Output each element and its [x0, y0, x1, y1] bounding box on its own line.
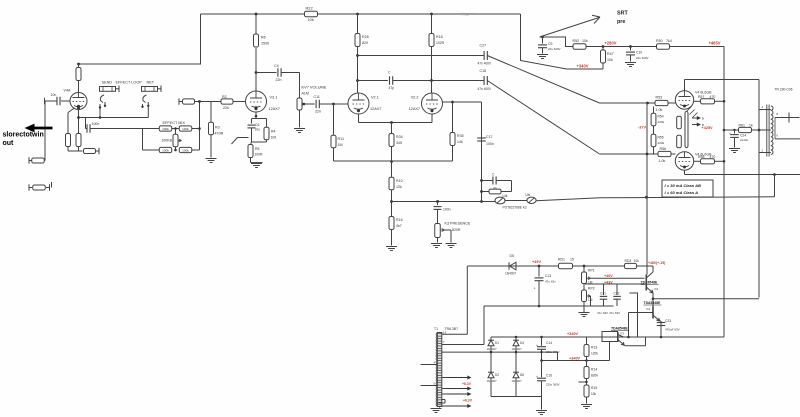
svg-text:C23: C23 [665, 319, 671, 323]
svg-text:pre: pre [617, 19, 625, 25]
svg-text:RD1: RD1 [558, 257, 565, 261]
svg-text:R61: R61 [739, 124, 745, 128]
wire jog [557, 352, 559, 360]
resistor 150 [28, 157, 30, 164]
arrow SRT pre [540, 18, 600, 38]
svg-text:C14: C14 [546, 341, 552, 345]
svg-text:C17: C17 [486, 135, 492, 139]
svg-text:102R: 102R [436, 41, 445, 45]
wire plate top [684, 80, 686, 91]
svg-text:R58: R58 [698, 155, 704, 159]
node NFB [645, 196, 648, 199]
resistor R54 220k [653, 107, 655, 114]
node C14 mid [540, 351, 542, 353]
svg-text:1.0k: 1.0k [656, 108, 663, 112]
svg-text:100n: 100n [92, 122, 100, 126]
node send feed [77, 116, 80, 119]
svg-text:V2.2: V2.2 [411, 96, 419, 100]
resistor R5 100R [251, 142, 252, 145]
node D1 mid [490, 351, 493, 354]
diode D1 1N4007 [490, 337, 492, 340]
svg-text:12AX7: 12AX7 [370, 107, 381, 111]
wire cathode bus V2 [358, 114, 360, 123]
arrow heater 2 [692, 124, 698, 126]
tube V4 6L6GB lower [675, 152, 693, 170]
svg-text:K2: K2 [647, 307, 651, 311]
diode D2 1N4007 [490, 352, 492, 372]
node mix2 [174, 149, 177, 152]
wire HT tap 2 [442, 344, 484, 346]
svg-text:V3.1: V3.1 [270, 96, 278, 100]
ground C16 [536, 410, 547, 412]
wire ret to bus [147, 106, 149, 118]
wire CT lead [759, 129, 771, 131]
capacitor C23 470uF [657, 322, 666, 324]
svg-text:12AX7: 12AX7 [269, 107, 280, 111]
svg-text:10k: 10k [634, 259, 640, 263]
svg-text:TDA8548E: TDA8548E [611, 327, 629, 331]
resistor R57 470 screen [694, 100, 700, 102]
svg-text:+465V: +465V [709, 41, 721, 46]
svg-text:out: out [3, 140, 15, 147]
switch SEND [100, 95, 104, 103]
svg-text:1.0k: 1.0k [659, 159, 666, 163]
svg-text:100k: 100k [182, 149, 189, 153]
svg-text:12AX7: 12AX7 [409, 107, 420, 111]
svg-text:47u 63V 47u 63V: 47u 63V 47u 63V [597, 311, 620, 315]
wire drive diagonal A [487, 56, 599, 104]
svg-text:+340V: +340V [569, 357, 581, 361]
node wiper [303, 103, 306, 106]
svg-text:R18: R18 [436, 35, 443, 39]
svg-text:slorectotwin: slorectotwin [3, 132, 44, 139]
wire send bus [79, 117, 149, 119]
ground V3.1 cathode [251, 163, 262, 165]
node bias A [646, 102, 649, 105]
wire cathode bottom bus [252, 141, 267, 143]
trimmer pot 1 [495, 200, 496, 203]
svg-text:47u 63v: 47u 63v [545, 280, 556, 284]
svg-text:B: B [702, 117, 704, 121]
svg-text:R55: R55 [658, 136, 664, 140]
wire mix left column [143, 128, 160, 130]
svg-text:C11: C11 [314, 95, 320, 99]
svg-text:C13: C13 [545, 274, 551, 278]
node mix1 [172, 128, 180, 130]
svg-text:47n 400V: 47n 400V [478, 87, 493, 91]
node bias B [646, 153, 649, 156]
resistor 14k fb [482, 191, 489, 193]
wire bias tap stub [579, 381, 587, 383]
svg-text:R56: R56 [660, 147, 667, 151]
wire to B+ [670, 46, 725, 48]
node V4A cathode [77, 107, 80, 110]
diode D5 1N4007 [508, 262, 510, 270]
svg-text:R3: R3 [215, 126, 220, 130]
tube V2.1 12AX7 [348, 93, 369, 114]
wire RP2 wiper down [590, 296, 592, 306]
svg-text:+: + [534, 287, 536, 291]
resistor R14 820k [586, 361, 588, 367]
svg-text:C18: C18 [480, 69, 487, 73]
wire drop x637 [630, 293, 638, 337]
svg-text:R13: R13 [591, 346, 597, 350]
wire cathode bus [68, 150, 83, 152]
resistor RD1 15 [559, 263, 573, 268]
wire V2.2 grid [443, 101, 453, 103]
resistor RD3 10k [625, 263, 637, 268]
diode D6 1N4007 [515, 352, 517, 372]
resistor R18 102R [431, 14, 433, 34]
resistor R50 7k4 [657, 44, 670, 49]
wire to C18 [432, 80, 484, 82]
svg-text:R16: R16 [396, 218, 403, 222]
resistor V4A plate load [78, 64, 80, 68]
wire Q2 base [629, 312, 654, 314]
svg-text:D4: D4 [520, 341, 524, 345]
svg-text:1N4007: 1N4007 [512, 347, 523, 351]
svg-text:15: 15 [570, 257, 574, 261]
svg-text:10k: 10k [525, 193, 531, 197]
svg-text:100n: 100n [486, 142, 494, 146]
svg-text:C10: C10 [636, 51, 642, 55]
node presence rail [390, 200, 393, 203]
resistor R15 10k [584, 385, 589, 397]
wire plate rail vertical [758, 80, 760, 298]
node V2.1 plate 2 [356, 79, 359, 82]
svg-text:1500: 1500 [261, 41, 269, 45]
resistor 100k [179, 126, 192, 131]
resistor R35 14k [450, 133, 455, 146]
svg-text:K3: K3 [621, 332, 625, 336]
svg-text:+6.3V: +6.3V [462, 382, 472, 386]
resistor R22 10k [305, 11, 318, 16]
svg-text:R57: R57 [698, 95, 704, 99]
wire NFB tap [774, 175, 776, 197]
node C14 rail [540, 359, 543, 362]
node fb2 [480, 190, 483, 193]
svg-text:10k: 10k [396, 185, 402, 189]
svg-text:47p: 47p [389, 86, 395, 90]
capacitor C6 bypass [251, 119, 253, 124]
resistor cathode 2 [76, 134, 81, 147]
svg-text:R50: R50 [656, 39, 663, 43]
svg-text:22k: 22k [223, 106, 229, 110]
node fb3 [480, 200, 483, 203]
svg-text:D1: D1 [495, 341, 499, 345]
svg-text:10k: 10k [308, 17, 314, 22]
ground presence [431, 243, 442, 245]
wire fb join [511, 181, 513, 192]
svg-text:V4A: V4A [64, 89, 72, 93]
tube V4A [70, 93, 87, 110]
capacitor C13 47u 63V [538, 266, 540, 277]
wire screen rail [586, 46, 657, 48]
box class note [662, 180, 713, 197]
resistor R55 220k [653, 126, 655, 134]
svg-text:10n: 10n [51, 93, 57, 97]
wire C16 ground [541, 397, 543, 410]
svg-text:345: 345 [396, 141, 402, 145]
wire PSU rail 460 [467, 265, 653, 267]
resistor R34 345 [391, 123, 393, 134]
svg-text:100KB: 100KB [161, 138, 172, 142]
svg-text:SEND: SEND [102, 81, 113, 85]
svg-text:I = 60 mA Class A: I = 60 mA Class A [665, 190, 699, 195]
ground R15 [581, 404, 592, 406]
resistor R53 1.0k [655, 100, 668, 105]
svg-text:100R: 100R [255, 153, 264, 157]
svg-text:R10: R10 [396, 179, 403, 183]
svg-text:RD3: RD3 [625, 259, 632, 263]
svg-text:I = 30 mA Class AB: I = 30 mA Class AB [665, 183, 702, 188]
svg-text:220u 360V: 220u 360V [546, 350, 560, 354]
node V4A plate supply [77, 63, 80, 66]
ground T1 [439, 407, 441, 408]
jack SEND [100, 87, 116, 92]
svg-text:10u: 10u [255, 128, 261, 132]
capacitor C10 22n 400V [630, 47, 632, 51]
wire bias rail right [652, 293, 654, 307]
svg-text:+340V: +340V [567, 332, 579, 336]
svg-text:TRA 3B7: TRA 3B7 [445, 327, 459, 331]
svg-text:R35: R35 [457, 134, 464, 138]
svg-text:R53: R53 [656, 96, 663, 100]
svg-text:1N4007: 1N4007 [512, 379, 523, 383]
node C10 [629, 45, 632, 48]
svg-text:R54: R54 [658, 115, 664, 119]
svg-text:RP1: RP1 [588, 269, 595, 273]
svg-text:+425V: +425V [702, 126, 714, 130]
capacitor C11 22n [304, 103, 315, 105]
svg-text:+6.3V: +6.3V [463, 399, 473, 403]
wire wiper bias 2 [585, 283, 645, 285]
capacitor C24 2x40u [733, 129, 735, 131]
wire Q3 emitter [624, 345, 645, 347]
svg-text:D5: D5 [510, 254, 514, 258]
wire mix right column [192, 128, 200, 130]
svg-text:R34: R34 [396, 135, 403, 139]
resistor R56 1.0k [658, 151, 671, 156]
svg-text:820k: 820k [591, 373, 598, 377]
capacitor C22 47u [616, 284, 618, 295]
node V2.2 supply [430, 13, 433, 16]
svg-text:R11: R11 [338, 137, 345, 141]
node V3.1 plate out [255, 71, 258, 74]
arrow heater tap 3 [442, 393, 447, 395]
node RP column [583, 265, 586, 268]
svg-text:22n: 22n [315, 110, 321, 114]
svg-text:820R: 820R [452, 228, 461, 232]
capacitor 100n [86, 128, 87, 130]
svg-text:7k4: 7k4 [666, 39, 672, 43]
svg-text:EFFECT MIX: EFFECT MIX [163, 121, 186, 125]
ground KV7 [294, 128, 305, 130]
resistor R11 1M [333, 104, 335, 136]
svg-text:+340V: +340V [577, 64, 589, 69]
tube V2.2 12AX7 [422, 93, 443, 114]
svg-text:220k: 220k [658, 120, 665, 124]
svg-text:TDA8548E: TDA8548E [644, 301, 662, 305]
svg-text:+49V: +49V [532, 260, 541, 264]
node plate supply [255, 13, 258, 16]
switch stub [232, 138, 249, 145]
node R47 top [602, 45, 605, 48]
resistor R6 1500 plate load [255, 48, 257, 91]
svg-text:1k5: 1k5 [271, 136, 277, 140]
ground R16 [386, 246, 397, 248]
arrow heater tap 2 [442, 388, 447, 390]
resistor R47 10k [602, 63, 604, 69]
cathode bus bars [685, 113, 688, 147]
svg-text:K2: K2 [655, 287, 659, 291]
wire presence rail [392, 201, 495, 203]
capacitor 10n input [61, 100, 70, 102]
resistor R61 1k [724, 129, 738, 131]
svg-text:SRT: SRT [617, 11, 628, 17]
wire B+ vertical [723, 47, 725, 338]
svg-text:C4: C4 [274, 64, 279, 68]
capacitor C9 22n 400V [540, 37, 574, 47]
svg-text:C16: C16 [546, 374, 552, 378]
svg-text:R22: R22 [306, 6, 313, 11]
resistor 100k [179, 147, 192, 152]
terminal input [44, 98, 46, 105]
node D4 mid [515, 351, 518, 354]
resistor R10 10k [391, 162, 393, 178]
node C13 [538, 265, 541, 268]
svg-text:EFFECT LOOP: EFFECT LOOP [116, 81, 143, 85]
wire Q2 emitter to C23 [660, 320, 661, 322]
svg-text:R2: R2 [222, 95, 227, 99]
resistor bias lower [677, 135, 682, 148]
svg-text:+460(+-15): +460(+-15) [648, 261, 665, 265]
tube V3.1 12AX7 [246, 91, 267, 112]
wire supply dropper [521, 14, 604, 69]
switch RET [143, 95, 147, 103]
wire rail corner to V4A plate [79, 14, 201, 64]
svg-text:22n 400V: 22n 400V [548, 47, 560, 51]
resistor R16 4k7 [391, 202, 393, 217]
wire to R2 [200, 101, 222, 103]
svg-text:100n: 100n [443, 208, 451, 212]
svg-text:K3 PRESENCE: K3 PRESENCE [445, 222, 471, 226]
wire plate bottom [684, 170, 686, 174]
V3.1 cathode network [255, 106, 258, 109]
resistor R13 120k [586, 337, 588, 345]
svg-text:C22: C22 [614, 292, 620, 296]
node tail [390, 121, 393, 124]
node presence tap [436, 200, 439, 203]
svg-text:4k7: 4k7 [396, 224, 402, 228]
svg-text:C27: C27 [480, 44, 487, 48]
node B+ CT [723, 129, 726, 132]
svg-text:RP2: RP2 [588, 287, 595, 291]
hatch marks [687, 107, 692, 112]
wire grid A to stopper [600, 102, 656, 104]
capacitor C17 100n [477, 137, 486, 139]
wire V4A cathode left [68, 108, 75, 113]
node V2.1 grid [332, 103, 335, 106]
svg-text:KV7 VOLUME: KV7 VOLUME [302, 85, 327, 90]
wire grid B [600, 153, 659, 155]
capacitor C16 220u [541, 361, 543, 378]
ground C10 [625, 62, 636, 64]
wire coupling top [358, 55, 484, 57]
resistor R52 10k [573, 44, 586, 49]
trimmer pot 2 [505, 200, 527, 202]
wire drive diagonal B [487, 81, 599, 155]
svg-text:R32: R32 [462, 12, 470, 17]
svg-text:470uF 63V: 470uF 63V [665, 328, 680, 332]
ground C9 [537, 54, 548, 56]
node V2.2 grid [451, 101, 454, 104]
wire grid divider down [481, 102, 483, 202]
arrow heater 1 [692, 117, 698, 119]
capacitor 47p [389, 76, 391, 85]
node V2.1 plate [356, 54, 359, 57]
wire grid down [44, 101, 46, 161]
resistor R28 820 [357, 14, 359, 34]
wire primary tap 2 [421, 385, 438, 387]
wire NFB line [536, 197, 774, 201]
svg-text:220k: 220k [658, 141, 665, 145]
svg-text:10k: 10k [582, 39, 588, 43]
resistor R3 470R [210, 102, 212, 123]
jack RET [142, 87, 158, 92]
svg-text:D6: D6 [520, 373, 524, 377]
resistor R4 1k5 [266, 119, 268, 128]
diode D4 1N4007 [515, 336, 518, 339]
svg-text:D2: D2 [495, 373, 499, 377]
arrow heater tap 1 [442, 377, 447, 379]
svg-text:+: + [729, 132, 731, 136]
svg-text:22n: 22n [276, 78, 282, 82]
wire wiper bias 1 [591, 277, 645, 279]
capacitor C4 22n [256, 72, 277, 74]
wire secondary taps [775, 117, 800, 119]
capacitor 4n7 [482, 180, 493, 182]
node grid junction [198, 100, 201, 103]
svg-text:RET: RET [147, 81, 155, 85]
capacitor C14 220u [540, 336, 543, 339]
svg-text:R6: R6 [261, 36, 266, 40]
node screen bottom [723, 160, 726, 163]
svg-text:+: + [536, 344, 538, 348]
svg-text:1N4007: 1N4007 [505, 272, 516, 276]
svg-text:10k: 10k [591, 392, 597, 396]
capacitor C21 47u [603, 284, 605, 295]
arrow out bold [33, 127, 53, 130]
svg-text:100k: 100k [182, 127, 189, 131]
resistor 100k [159, 147, 172, 152]
svg-text:R28: R28 [362, 35, 369, 39]
wire Q3 base feed [609, 342, 611, 361]
svg-text:V4 6L6GB: V4 6L6GB [695, 91, 712, 95]
wire to V2.1 [334, 103, 349, 105]
resistor 100k [159, 126, 172, 131]
svg-text:R5: R5 [255, 147, 260, 151]
wire HT tap 1 [442, 333, 468, 335]
svg-text:2x40u: 2x40u [740, 138, 749, 142]
svg-text:C9: C9 [548, 42, 552, 46]
node R13 bottom [585, 359, 588, 362]
wire primary tap 1 [421, 364, 438, 366]
wire R2 to V3.1 grid [233, 101, 246, 103]
wire stub [51, 182, 53, 188]
svg-text:A1M: A1M [302, 92, 309, 96]
node V2.2 plate [430, 79, 433, 82]
